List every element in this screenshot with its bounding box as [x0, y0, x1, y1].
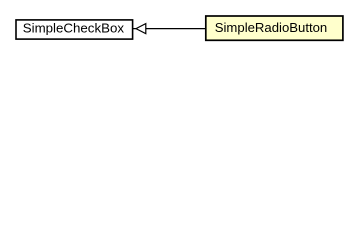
svg-text:SimpleRadioButton: SimpleRadioButton: [215, 20, 328, 35]
wire: inheritance connector: [132, 28, 206, 30]
svg-text:SimpleCheckBox: SimpleCheckBox: [23, 21, 125, 36]
background: [0, 0, 352, 59]
class box SimpleCheckBox: [16, 20, 133, 39]
class box SimpleRadioButton (highlighted): [206, 16, 343, 40]
inheritance hollow triangle arrowhead: [136, 24, 146, 34]
